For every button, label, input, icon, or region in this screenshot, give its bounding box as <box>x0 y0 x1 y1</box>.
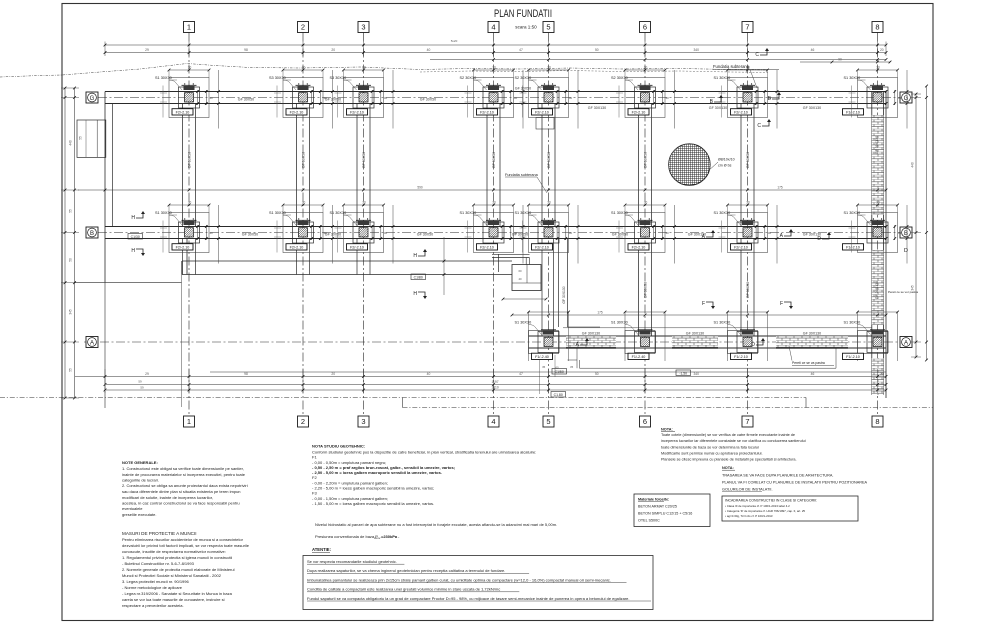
svg-text:55: 55 <box>69 368 73 372</box>
svg-text:3. Legea protectiei muncii nr.: 3. Legea protectiei muncii nr. 90/1996 <box>122 579 189 584</box>
svg-text:30: 30 <box>644 201 648 205</box>
svg-text:F2/-2.10: F2/-2.10 <box>350 111 364 115</box>
svg-text:F1/-2.10: F1/-2.10 <box>846 355 860 359</box>
svg-text:S1 30X30: S1 30X30 <box>515 320 532 324</box>
svg-text:GF 30X130: GF 30X130 <box>709 106 727 110</box>
svg-text:345: 345 <box>69 309 73 315</box>
svg-text:20: 20 <box>331 48 335 52</box>
svg-text:GF 30X50: GF 30X50 <box>644 282 648 298</box>
svg-text:C1/30: C1/30 <box>131 235 140 239</box>
svg-text:respectare a prevederilor aces: respectare a prevederilor acesteia. <box>122 603 184 608</box>
svg-text:GF 30X50: GF 30X50 <box>238 97 254 101</box>
svg-text:cunoscute, insotite de respect: cunoscute, insotite de respectarea norma… <box>122 549 226 554</box>
svg-text:INCADRAREA CONSTRUCTIEI IN CLA: INCADRAREA CONSTRUCTIEI IN CLASE SI CATE… <box>725 499 817 503</box>
svg-text:GF 30X130: GF 30X130 <box>803 106 821 110</box>
svg-text:• Clasa III de importanta cf.: • Clasa III de importanta cf. P 100/1-20… <box>725 504 790 508</box>
svg-text:Toate cotele (dimensiunile) se: Toate cotele (dimensiunile) se vor verif… <box>661 433 795 437</box>
svg-text:F1/-2.40: F1/-2.40 <box>535 355 549 359</box>
svg-text:PLAN FUNDATII: PLAN FUNDATII <box>494 8 552 20</box>
svg-text:Dupa realizarea sapaturilor, s: Dupa realizarea sapaturilor, se va chema… <box>307 568 505 573</box>
svg-text:BETON SIMPLU C12/15 + C5/16: BETON SIMPLU C12/15 + C5/16 <box>638 512 692 516</box>
svg-text:• Categoria 'D' de importanta: • Categoria 'D' de importanta cf. HGR 76… <box>725 509 805 513</box>
svg-text:F2/-2.10: F2/-2.10 <box>176 246 190 250</box>
svg-text:47: 47 <box>519 372 523 376</box>
svg-text:S1 30X30: S1 30X30 <box>611 320 628 324</box>
svg-text:A: A <box>904 340 908 346</box>
svg-text:G: G <box>90 96 95 102</box>
svg-text:440: 440 <box>911 162 915 168</box>
svg-text:59: 59 <box>138 380 142 384</box>
svg-text:GF 30X50: GF 30X50 <box>188 152 192 168</box>
svg-text:PLANUL VA FI CORELAT CU PLANUR: PLANUL VA FI CORELAT CU PLANURILE DE INS… <box>722 481 868 485</box>
svg-text:2: 2 <box>301 417 305 426</box>
svg-text:- Norme metodologice de aplica: - Norme metodologice de aplicare <box>122 585 183 590</box>
svg-text:2: 2 <box>301 23 305 32</box>
svg-text:30: 30 <box>569 231 573 235</box>
svg-text:S1 30X30: S1 30X30 <box>844 320 861 324</box>
svg-text:GF 30X50: GF 30X50 <box>492 152 496 168</box>
svg-text:NOTA:: NOTA: <box>661 428 673 432</box>
svg-text:C1/50: C1/50 <box>555 370 564 374</box>
svg-text:30: 30 <box>302 66 306 70</box>
svg-text:20: 20 <box>880 48 884 52</box>
svg-text:F2/-2.10: F2/-2.10 <box>535 111 549 115</box>
svg-text:46: 46 <box>811 48 815 52</box>
svg-text:D: D <box>904 248 908 254</box>
svg-text:GOLURILOR DE INSTALATII.: GOLURILOR DE INSTALATII. <box>722 488 773 492</box>
svg-text:30: 30 <box>323 231 327 235</box>
svg-text:Conform studiului geotehnic pu: Conform studiului geotehnic pus la dispo… <box>312 450 536 455</box>
svg-text:40: 40 <box>427 48 431 52</box>
svg-text:F2/-2.10: F2/-2.10 <box>734 246 748 250</box>
svg-text:F2/-2.10: F2/-2.10 <box>734 111 748 115</box>
svg-text:F2/-2.10: F2/-2.10 <box>535 246 549 250</box>
svg-text:F2/-2.10: F2/-2.10 <box>480 111 494 115</box>
svg-text:F1/-2.10: F1/-2.10 <box>846 111 860 115</box>
svg-text:GF 30X50: GF 30X50 <box>746 282 750 298</box>
svg-text:- 2,20 - 5,00 m = loess galb: - 2,20 - 5,00 m = loess galben macropori… <box>312 486 434 491</box>
svg-text:20: 20 <box>880 372 884 376</box>
svg-text:F2/-2.10: F2/-2.10 <box>290 246 304 250</box>
svg-text:C1/80: C1/80 <box>414 275 423 279</box>
svg-text:H: H <box>413 291 417 297</box>
svg-text:F1/-2.40: F1/-2.40 <box>632 355 646 359</box>
svg-text:H: H <box>131 215 135 221</box>
svg-text:F2/-2.10: F2/-2.10 <box>176 111 190 115</box>
svg-text:30: 30 <box>665 96 669 100</box>
svg-text:Se vor respecta recomandarile: Se vor respecta recomandarile studiului … <box>307 559 397 564</box>
svg-text:GF 30X50: GF 30X50 <box>417 232 433 236</box>
svg-text:Pentru eliminarea riscurilor a: Pentru eliminarea riscurilor accidentelo… <box>122 537 244 542</box>
svg-text:55: 55 <box>79 136 83 140</box>
svg-text:inceperea lucrarilor iar difer: inceperea lucrarilor iar diferentele con… <box>661 439 806 443</box>
svg-text:30: 30 <box>188 201 192 205</box>
svg-text:30: 30 <box>876 66 880 70</box>
svg-text:30: 30 <box>876 201 880 205</box>
svg-text:Pereti ce se va pastra: Pereti ce se va pastra <box>792 361 825 365</box>
svg-text:cm Ø bs: cm Ø bs <box>718 164 732 168</box>
svg-text:GF 30X50: GF 30X50 <box>325 232 341 236</box>
svg-text:30: 30 <box>665 231 669 235</box>
svg-text:Imbunatatirea pamantului se re: Imbunatatirea pamantului se realizeaza p… <box>307 577 611 582</box>
svg-text:175: 175 <box>777 186 783 190</box>
svg-text:inainte de procurarea material: inainte de procurarea materialelor si in… <box>122 472 246 477</box>
svg-text:F2/-2.10: F2/-2.10 <box>632 111 646 115</box>
svg-text:35: 35 <box>570 365 574 369</box>
svg-text:30: 30 <box>188 66 192 70</box>
svg-text:• ag=0.30g, Tc=1.0s cf. P 100: • ag=0.30g, Tc=1.0s cf. P 100/1-2013 <box>725 514 773 518</box>
svg-text:40: 40 <box>518 277 522 281</box>
svg-text:30: 30 <box>384 96 388 100</box>
svg-text:eventualele: eventualele <box>122 506 143 511</box>
svg-text:98: 98 <box>244 48 248 52</box>
svg-text:2. Constructorul se obliga sa: 2. Constructorul se obliga sa anunte pro… <box>122 483 248 488</box>
svg-text:Presiunea conventionala de baz: Presiunea conventionala de baza P <box>315 534 378 539</box>
svg-text:8: 8 <box>875 23 879 32</box>
svg-text:50: 50 <box>595 372 599 376</box>
svg-text:GF 30X50: GF 30X50 <box>746 152 750 168</box>
svg-text:GF 30X50: GF 30X50 <box>362 152 366 168</box>
svg-text:30: 30 <box>569 96 573 100</box>
svg-text:20: 20 <box>331 372 335 376</box>
svg-text:C1.80: C1.80 <box>554 393 563 397</box>
svg-text:NOTA STUDIU GEOTEHNIC:: NOTA STUDIU GEOTEHNIC: <box>312 444 365 449</box>
svg-text:C: C <box>757 123 761 129</box>
svg-text:5: 5 <box>546 23 550 32</box>
svg-text:sau daca diferentele dintre pl: sau daca diferentele dintre plan si situ… <box>122 489 241 494</box>
svg-text:D: D <box>751 342 755 348</box>
svg-text:30: 30 <box>384 231 388 235</box>
svg-text:GF 30X50: GF 30X50 <box>302 152 306 168</box>
svg-text:30: 30 <box>302 201 306 205</box>
svg-text:TRASAREA SE VA FACE DUPA PLANU: TRASAREA SE VA FACE DUPA PLANURILE DE AR… <box>722 474 833 478</box>
svg-text:GF 30X50: GF 30X50 <box>242 232 258 236</box>
svg-text:C: C <box>755 52 759 58</box>
svg-text:- Buletinul Constructiilor nr.: - Buletinul Constructiilor nr. 5-6-7-8/1… <box>122 561 195 566</box>
svg-text:30: 30 <box>514 231 518 235</box>
svg-text:Conditia de calitate a compact: Conditia de calitate a compactarii este … <box>307 587 500 592</box>
svg-text:ATENTIE:: ATENTIE: <box>312 547 331 552</box>
svg-text:F1/-2.10: F1/-2.10 <box>846 246 860 250</box>
svg-text:B: B <box>90 231 94 237</box>
svg-text:Modificarile sunt permise numa: Modificarile sunt permise numai cu aprob… <box>661 452 763 456</box>
svg-text:59: 59 <box>140 386 144 390</box>
svg-text:greselile executate.: greselile executate. <box>122 512 156 517</box>
svg-text:G: G <box>904 96 909 102</box>
svg-text:F2/-2.10: F2/-2.10 <box>290 111 304 115</box>
svg-text:GF 30X130: GF 30X130 <box>562 286 566 303</box>
svg-text:conv: conv <box>374 536 381 540</box>
svg-text:3: 3 <box>361 417 365 426</box>
svg-text:30: 30 <box>323 96 327 100</box>
svg-text:GF 30X130: GF 30X130 <box>803 332 821 336</box>
svg-text:GF 30X130: GF 30X130 <box>686 332 704 336</box>
svg-text:1: 1 <box>187 417 191 426</box>
svg-text:Nivelul hidrostatic al panzei: Nivelul hidrostatic al panzei de apa sub… <box>315 522 557 527</box>
svg-text:340: 340 <box>693 372 699 376</box>
svg-text:35: 35 <box>542 365 546 369</box>
svg-text:6: 6 <box>643 417 647 426</box>
svg-text:4: 4 <box>491 23 495 32</box>
svg-text:1410: 1410 <box>491 386 499 390</box>
svg-text:F2/-2.10: F2/-2.10 <box>632 246 646 250</box>
svg-text:30: 30 <box>547 66 551 70</box>
svg-text:-1.50: -1.50 <box>679 371 687 375</box>
svg-text:30: 30 <box>492 201 496 205</box>
svg-text:30: 30 <box>547 201 551 205</box>
svg-text:Plansele se citesc impreuna cu: Plansele se citesc impreuna cu plansele … <box>661 458 797 462</box>
svg-text:1197: 1197 <box>491 380 498 384</box>
svg-text:29: 29 <box>145 372 149 376</box>
svg-text:H: H <box>131 248 135 254</box>
svg-text:47: 47 <box>519 48 523 52</box>
svg-text:7: 7 <box>745 417 749 426</box>
svg-text:3: 3 <box>361 23 365 32</box>
svg-text:D: D <box>817 236 821 242</box>
svg-text:Materiale folosite:: Materiale folosite: <box>638 498 669 502</box>
svg-text:NOTA:: NOTA: <box>722 466 734 470</box>
svg-text:2. Normele generale de protect: 2. Normele generale de protectia muncii … <box>122 567 235 572</box>
svg-text:B: B <box>904 231 908 237</box>
svg-text:=230kPa .: =230kPa . <box>381 534 399 539</box>
svg-text:590: 590 <box>417 186 423 190</box>
svg-text:- 1,50 - 5,00 m = loess galbe: - 1,50 - 5,00 m = loess galben macropori… <box>312 501 434 506</box>
svg-text:F: F <box>702 301 705 307</box>
svg-text:50: 50 <box>69 258 73 262</box>
svg-text:F2/-2.10: F2/-2.10 <box>350 246 364 250</box>
svg-text:1. Constructorul este obligat: 1. Constructorul este obligat sa verific… <box>122 466 244 471</box>
svg-text:30: 30 <box>514 96 518 100</box>
svg-text:30: 30 <box>898 96 902 100</box>
svg-text:Pereti ce se vor pastra: Pereti ce se vor pastra <box>888 290 918 294</box>
svg-text:29: 29 <box>145 48 149 52</box>
svg-text:scara 1:50: scara 1:50 <box>515 25 537 30</box>
svg-text:30: 30 <box>746 201 750 205</box>
svg-text:Fundatia subterana: Fundatia subterana <box>505 173 539 177</box>
svg-text:F1/-2.10: F1/-2.10 <box>734 355 748 359</box>
svg-text:F: F <box>780 301 783 307</box>
svg-text:categoriile de lucrari.: categoriile de lucrari. <box>122 478 159 483</box>
svg-text:GF 30X50: GF 30X50 <box>612 232 628 236</box>
svg-text:55: 55 <box>69 209 73 213</box>
svg-text:OTEL S500C: OTEL S500C <box>638 519 660 523</box>
svg-text:F2/-2.10: F2/-2.10 <box>480 246 494 250</box>
svg-text:GF 30X130: GF 30X130 <box>582 332 600 336</box>
svg-text:30: 30 <box>209 231 213 235</box>
svg-text:GF 30X50: GF 30X50 <box>547 152 551 168</box>
svg-text:30: 30 <box>768 231 772 235</box>
svg-text:careia se vor lua toate masuri: careia se vor lua toate masurile de cuno… <box>122 597 225 602</box>
svg-text:440: 440 <box>69 140 73 146</box>
svg-text:5: 5 <box>546 417 550 426</box>
svg-text:- Legea nr.319/2006 - Sanatate: - Legea nr.319/2006 - Sanatate si Securi… <box>122 591 233 596</box>
svg-text:46: 46 <box>811 372 815 376</box>
svg-text:40: 40 <box>427 372 431 376</box>
svg-text:175: 175 <box>597 311 603 315</box>
svg-text:7: 7 <box>745 23 749 32</box>
svg-text:GF 30X130: GF 30X130 <box>588 106 606 110</box>
svg-text:GF 30X50: GF 30X50 <box>325 97 341 101</box>
svg-text:90: 90 <box>838 58 842 62</box>
svg-text:30: 30 <box>362 66 366 70</box>
svg-text:dezvaluirii lor privind toti f: dezvaluirii lor privind toti factorii im… <box>122 543 250 548</box>
svg-text:H: H <box>413 253 417 259</box>
svg-text:S1 30X30: S1 30X30 <box>714 320 731 324</box>
svg-text:30: 30 <box>362 201 366 205</box>
svg-text:4: 4 <box>491 417 495 426</box>
svg-text:5x20: 5x20 <box>451 39 458 43</box>
svg-text:GF 30X130: GF 30X130 <box>875 281 879 299</box>
svg-text:1: 1 <box>187 23 191 32</box>
svg-text:8: 8 <box>875 417 879 426</box>
svg-text:340: 340 <box>693 48 699 52</box>
svg-text:A: A <box>90 340 94 346</box>
svg-text:MASURI DE PROTECTIE A MUNCII: MASURI DE PROTECTIE A MUNCII <box>122 531 197 536</box>
svg-text:GF 30X50: GF 30X50 <box>644 152 648 168</box>
svg-text:acestea, in caz contrar constr: acestea, in caz contrar constructorul se… <box>122 501 240 506</box>
svg-text:Muncii si Protectiei Sociale s: Muncii si Protectiei Sociale si Minister… <box>122 573 222 578</box>
svg-text:GF 30X50: GF 30X50 <box>420 97 436 101</box>
svg-text:30: 30 <box>209 96 213 100</box>
svg-text:1. Regulamentul privind protec: 1. Regulamentul privind protectia si igi… <box>122 555 232 560</box>
svg-text:98: 98 <box>244 372 248 376</box>
svg-text:50: 50 <box>595 48 599 52</box>
svg-text:Ø8/10x/10: Ø8/10x/10 <box>718 158 735 162</box>
svg-text:60: 60 <box>518 269 522 273</box>
svg-text:BETON ARMAT C20/25: BETON ARMAT C20/25 <box>638 505 677 509</box>
svg-text:- 2,50 - 5,00 m = loess galbe: - 2,50 - 5,00 m = loess galben macropori… <box>312 470 442 475</box>
svg-text:Fundatia subterana: Fundatia subterana <box>713 64 750 69</box>
svg-text:Fundul sapaturii se va compact: Fundul sapaturii se va compacta obligato… <box>307 596 630 601</box>
svg-text:GF 30X130: GF 30X130 <box>875 136 879 154</box>
svg-text:modificari de solutie, inainte: modificari de solutie, inainte de incepe… <box>122 495 213 500</box>
svg-text:toate dimensiunile de baza se: toate dimensiunile de baza se vor determ… <box>661 445 759 449</box>
svg-text:6: 6 <box>643 23 647 32</box>
svg-text:NOTE GENERALE:: NOTE GENERALE: <box>122 460 158 465</box>
svg-text:30: 30 <box>898 231 902 235</box>
